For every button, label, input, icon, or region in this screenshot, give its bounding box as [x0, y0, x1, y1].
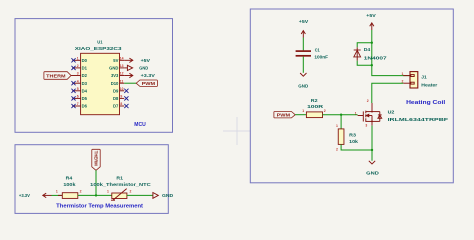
- svg-text:2: 2: [367, 99, 369, 103]
- svg-text:+3.3V: +3.3V: [19, 193, 30, 198]
- wire +5V to C1: [302, 38, 304, 51]
- svg-text:D7: D7: [113, 104, 119, 109]
- svg-text:D0: D0: [82, 58, 88, 63]
- svg-text:R2: R2: [311, 98, 318, 103]
- U2 pin numbers: [355, 99, 369, 128]
- svg-text:100nF: 100nF: [314, 55, 328, 60]
- wire D4 bottom branch: [357, 61, 372, 66]
- svg-text:GND: GND: [109, 66, 118, 71]
- net label PWM (from U1 pin 11): [136, 80, 157, 86]
- svg-text:J1: J1: [421, 75, 427, 80]
- svg-text:IRLML6344TRPBF: IRLML6344TRPBF: [388, 117, 449, 122]
- no-connect X pin8: [124, 104, 128, 108]
- svg-text:3: 3: [77, 72, 79, 76]
- transistor U2 MOSFET body: [358, 103, 382, 126]
- U1 left pins stubs 1-7: [71, 60, 81, 106]
- no-connect X pin9: [124, 96, 128, 100]
- power GND (right of R1): [153, 193, 174, 199]
- wire junction to R3: [340, 115, 342, 129]
- svg-text:10k: 10k: [349, 139, 358, 144]
- U1 left pin names D0-D6: [82, 58, 88, 109]
- no-connect X pin1: [71, 58, 75, 62]
- net label THERM (to U1 pin 3): [44, 72, 71, 80]
- wire +3.3V to R4: [52, 194, 63, 196]
- U1 right pin names: [109, 58, 119, 109]
- svg-text:1N4007: 1N4007: [364, 56, 388, 61]
- svg-text:D8: D8: [113, 96, 119, 101]
- svg-text:12: 12: [120, 72, 124, 76]
- svg-text:7: 7: [77, 102, 79, 106]
- power +5V (U1 pin 14): [124, 58, 150, 63]
- svg-text:+5V: +5V: [299, 19, 308, 24]
- power GND (below C1): [298, 73, 309, 88]
- power +5V (top of heater branch): [366, 13, 375, 30]
- svg-text:2: 2: [324, 109, 326, 113]
- wire U1 pin 11 to PWM label: [124, 82, 136, 84]
- svg-text:R1: R1: [116, 176, 123, 181]
- wire R2 to gate: [323, 114, 358, 116]
- svg-text:5V: 5V: [113, 58, 118, 63]
- svg-text:PWM: PWM: [277, 113, 291, 118]
- thermistor R1: [90, 176, 151, 201]
- svg-text:GND: GND: [162, 193, 174, 198]
- Heating Coil section box: [250, 9, 453, 183]
- svg-text:+5V: +5V: [366, 13, 375, 18]
- resistor R2: [302, 98, 326, 118]
- svg-text:2: 2: [80, 190, 82, 194]
- net label PWM (gate drive): [274, 111, 295, 117]
- svg-text:XIAO_ESP32C3: XIAO_ESP32C3: [75, 46, 122, 52]
- wire R4 to R1: [78, 194, 112, 196]
- MCU U1 body: [81, 53, 120, 114]
- U1 left pin numbers: [77, 57, 79, 107]
- grid origin cross: [223, 117, 251, 145]
- junction gate/R3: [340, 114, 342, 116]
- svg-text:8: 8: [120, 102, 122, 106]
- junction D4 bottom: [371, 64, 373, 66]
- no-connect X pin6: [71, 96, 75, 100]
- svg-text:5: 5: [77, 87, 79, 91]
- svg-text:GND: GND: [298, 83, 309, 88]
- svg-text:9: 9: [120, 95, 122, 99]
- svg-text:3V3: 3V3: [111, 73, 119, 78]
- svg-text:10: 10: [120, 87, 124, 91]
- svg-text:1: 1: [355, 111, 357, 115]
- wire C1 to GND: [302, 57, 304, 73]
- svg-text:GND: GND: [139, 66, 149, 71]
- junction D4 top: [371, 42, 373, 44]
- svg-text:4: 4: [77, 79, 79, 83]
- connector J1: [402, 72, 438, 88]
- svg-text:U1: U1: [97, 40, 102, 46]
- svg-text:100k: 100k: [63, 182, 76, 187]
- power GND (U1 pin 13): [124, 65, 149, 70]
- svg-text:R4: R4: [66, 176, 73, 181]
- capacitor C1: [296, 47, 329, 59]
- wire J1 pin2 to Q drain: [372, 83, 403, 103]
- svg-text:6: 6: [77, 95, 79, 99]
- svg-text:100R: 100R: [307, 104, 324, 109]
- net label THERM (vertical): [92, 149, 100, 170]
- junction source/R3: [371, 149, 373, 151]
- svg-text:C1: C1: [315, 47, 320, 52]
- power +5V (above C1): [299, 19, 308, 37]
- svg-text:THERM: THERM: [93, 151, 98, 166]
- Thermistor section box: [15, 145, 168, 214]
- svg-text:+5V: +5V: [141, 58, 150, 63]
- wire R1 to GND: [127, 194, 153, 196]
- wire R3 bottom to source junction: [341, 144, 372, 150]
- svg-text:R3: R3: [349, 132, 356, 137]
- svg-text:D4: D4: [364, 47, 371, 52]
- svg-text:D10: D10: [111, 81, 119, 86]
- no-connect X pin7: [71, 104, 75, 108]
- svg-text:D6: D6: [82, 104, 88, 109]
- resistor R4: [56, 176, 82, 199]
- svg-text:U2: U2: [388, 109, 395, 114]
- svg-text:D2: D2: [82, 73, 88, 78]
- no-connect X pin4: [71, 81, 75, 85]
- MCU section box: [15, 19, 173, 133]
- power +3.3V (left of R4): [19, 193, 52, 198]
- svg-text:2: 2: [77, 64, 79, 68]
- svg-text:1: 1: [56, 190, 58, 194]
- svg-text:11: 11: [120, 79, 124, 83]
- MCU U1 reference and value labels: [75, 40, 122, 52]
- wire THERM label to junction: [95, 170, 97, 195]
- svg-text:Thermistor Temp Measurement: Thermistor Temp Measurement: [56, 204, 143, 210]
- wire D4 top branch: [357, 43, 372, 48]
- U2 reference and value: [388, 109, 449, 122]
- wire +5V down to J1 pin1 corner: [372, 30, 410, 76]
- svg-text:D4: D4: [82, 88, 88, 93]
- svg-text:100k_Thermistor_NTC: 100k_Thermistor_NTC: [90, 182, 151, 187]
- svg-text:1: 1: [402, 72, 404, 76]
- U1 right pin numbers: [120, 57, 124, 107]
- svg-text:1: 1: [107, 190, 109, 194]
- svg-text:2: 2: [130, 190, 132, 194]
- no-connect X pin10: [124, 89, 128, 93]
- svg-text:Heater: Heater: [421, 82, 437, 87]
- svg-text:Heating Coil: Heating Coil: [406, 100, 446, 106]
- wire source to GND: [371, 126, 373, 161]
- svg-text:13: 13: [120, 64, 124, 68]
- svg-text:D9: D9: [113, 88, 119, 93]
- svg-text:D1: D1: [82, 66, 88, 71]
- svg-text:14: 14: [120, 57, 124, 61]
- svg-text:1: 1: [302, 109, 304, 113]
- svg-text:3: 3: [365, 124, 367, 128]
- svg-text:D3: D3: [82, 81, 88, 86]
- svg-text:+3.3V: +3.3V: [141, 73, 155, 78]
- svg-text:2: 2: [336, 147, 338, 151]
- power GND (below Q): [366, 161, 380, 176]
- svg-text:1: 1: [77, 57, 79, 61]
- junction at THERM node: [95, 194, 97, 196]
- svg-text:MCU: MCU: [134, 122, 145, 128]
- power +3.3V (U1 pin 12): [124, 73, 155, 78]
- resistor R3: [336, 124, 359, 151]
- no-connect X pin2: [71, 66, 75, 70]
- no-connect X pin5: [71, 89, 75, 93]
- svg-text:1: 1: [336, 124, 338, 128]
- U1 right pins stubs 8-14: [120, 60, 125, 106]
- svg-text:PWM: PWM: [142, 81, 156, 86]
- wire PWM to R2: [295, 114, 306, 116]
- svg-text:THERM: THERM: [46, 73, 66, 78]
- svg-text:D5: D5: [82, 96, 88, 101]
- diode D4: [354, 47, 388, 60]
- svg-text:GND: GND: [366, 171, 380, 176]
